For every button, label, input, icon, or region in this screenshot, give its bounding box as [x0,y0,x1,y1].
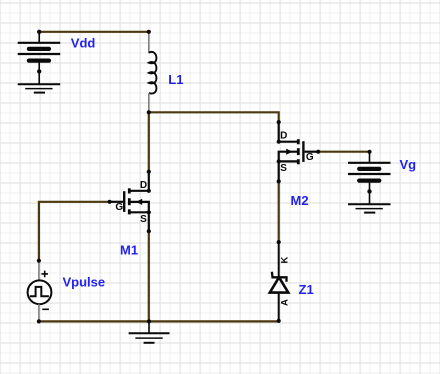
wire M1 source to ground node [148,231,150,321]
svg-text:G: G [306,152,314,163]
node M2 drain wire [277,120,281,124]
node M1 source corner [147,210,151,214]
svg-text:Z1: Z1 [299,282,314,297]
node M1 drain wire [147,170,151,174]
node ground junction [147,319,151,323]
node Vdd/L1 top [37,30,41,34]
wire L1-bottom to M2 drain [149,112,279,122]
mosfet M1 [110,172,149,232]
node M2 source wire [277,179,281,183]
node M1 source wire [147,229,151,233]
svg-text:D: D [140,180,147,191]
battery Vdd with ground [18,30,61,93]
node M2 gate wire [316,150,320,154]
svg-text:D: D [280,130,287,141]
node Vpulse bottom [37,319,41,323]
svg-text:A: A [279,299,290,306]
svg-text:G: G [115,202,123,213]
wire Vpulse-bottom to ground node [39,320,149,322]
wire ground node to Z1 anode [149,320,279,322]
svg-text:Vpulse: Vpulse [63,274,106,289]
node M1 drain corner [147,189,151,193]
wire M1 gate to Vpulse-top [39,202,110,261]
zener diode Z1 [270,242,289,321]
mosfet M2 [279,122,319,181]
wire Vdd-top to L1-top [39,31,149,33]
ground (bottom center) [129,321,170,342]
svg-text:S: S [280,163,287,174]
svg-text:S: S [140,214,147,225]
node M2 drain corner [277,140,281,144]
battery Vg with ground [348,150,391,213]
pulse source Vpulse [28,261,52,322]
node L1 bottom (T junction) [147,110,151,114]
svg-text:L1: L1 [168,72,183,87]
svg-text:M2: M2 [291,193,309,208]
wire M2 source to Z1 cathode [278,181,280,242]
wire L1-bottom to M1 drain [148,112,150,171]
svg-text:M1: M1 [120,242,138,257]
svg-text:Vg: Vg [400,157,417,172]
node M1 gate wire [108,200,112,204]
node Z1 anode [277,319,281,323]
node M2 source corner [277,159,281,163]
svg-text:K: K [280,257,291,264]
svg-text:Vdd: Vdd [71,36,96,51]
inductor L1 [149,32,157,113]
wire M2 gate to Vg-top [318,151,369,153]
node Z1 cathode [277,240,281,244]
node L1 top [147,30,151,34]
node Vpulse top [37,259,41,263]
